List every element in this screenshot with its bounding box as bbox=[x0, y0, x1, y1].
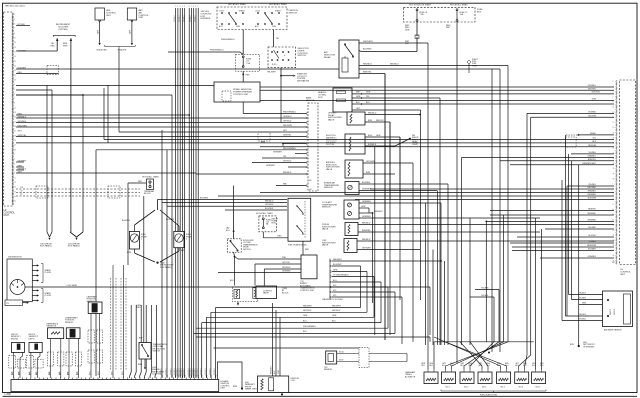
svg-text:NO.6: NO.6 bbox=[536, 387, 540, 389]
svg-text:SWITCH: SWITCH bbox=[153, 351, 161, 353]
wire bbox=[510, 164, 614, 166]
svg-text:23: 23 bbox=[613, 137, 615, 139]
wire bbox=[330, 271, 331, 272]
svg-text:GRY/WHT: GRY/WHT bbox=[362, 247, 372, 249]
wire bbox=[485, 221, 487, 341]
svg-text:YEL/GRN: YEL/GRN bbox=[588, 115, 597, 117]
wire bbox=[565, 135, 567, 316]
svg-text:G2: G2 bbox=[612, 262, 615, 264]
svg-text:BRN/RED: BRN/RED bbox=[362, 230, 371, 232]
svg-text:6: 6 bbox=[189, 6, 190, 8]
svg-text:VALVE: VALVE bbox=[322, 244, 329, 247]
wire bbox=[216, 307, 361, 309]
wire bbox=[306, 166, 307, 167]
svg-text:YEL/BLK: YEL/BLK bbox=[481, 295, 489, 297]
svg-text:RED: RED bbox=[138, 181, 143, 183]
svg-text:NO.4: NO.4 bbox=[501, 387, 505, 389]
wire bbox=[280, 68, 282, 76]
svg-text:1993 Mercedes-Benz: 1993 Mercedes-Benz bbox=[5, 5, 26, 8]
wire bbox=[332, 276, 374, 278]
svg-text:FUEL PUMPS RELAY: FUEL PUMPS RELAY bbox=[288, 244, 307, 247]
wire bbox=[433, 342, 435, 370]
svg-text:BUZZERS: BUZZERS bbox=[201, 18, 211, 20]
wire bbox=[475, 289, 499, 291]
fuel pumps relay bbox=[288, 198, 311, 241]
wire bbox=[134, 249, 136, 253]
wire bbox=[359, 42, 428, 44]
svg-text:GRN/RED: GRN/RED bbox=[587, 220, 596, 222]
wire bbox=[128, 182, 147, 184]
wire bbox=[50, 339, 52, 378]
wire bbox=[171, 95, 173, 378]
node fuel injectors bracket bbox=[441, 390, 546, 392]
svg-text:31: 31 bbox=[613, 158, 615, 160]
wire bbox=[306, 173, 307, 174]
svg-text:SENSOR: SENSOR bbox=[324, 187, 333, 189]
wire bbox=[355, 199, 614, 201]
wire bbox=[103, 88, 105, 140]
wire bbox=[526, 113, 528, 355]
wire bbox=[330, 265, 331, 266]
wire bbox=[302, 241, 304, 255]
wire bbox=[359, 202, 441, 204]
svg-text:RELAY: RELAY bbox=[324, 56, 331, 59]
svg-text:27: 27 bbox=[14, 145, 16, 147]
wire bbox=[107, 85, 109, 142]
wire bbox=[363, 173, 395, 175]
svg-text:BRN: BRN bbox=[233, 386, 238, 388]
wire bbox=[332, 271, 367, 273]
wire bbox=[168, 51, 240, 53]
svg-text:5: 5 bbox=[184, 6, 185, 8]
svg-text:HOT AT ALL TIMES: HOT AT ALL TIMES bbox=[256, 212, 273, 215]
ground bbox=[281, 393, 283, 395]
svg-text:LOCK: LOCK bbox=[255, 11, 261, 13]
wire bbox=[561, 180, 563, 321]
wire bbox=[262, 232, 264, 238]
wire bbox=[507, 66, 509, 342]
svg-text:BRN/RED: BRN/RED bbox=[587, 213, 596, 215]
svg-text:GRN: GRN bbox=[332, 315, 337, 317]
wire bbox=[359, 207, 369, 209]
wire bbox=[359, 65, 508, 67]
wire bbox=[272, 303, 274, 376]
wire bbox=[306, 131, 307, 132]
svg-text:HOT AT ALL TIMES: HOT AT ALL TIMES bbox=[269, 3, 287, 6]
svg-text:GRY/T.BL: GRY/T.BL bbox=[592, 92, 600, 94]
svg-text:L-608: L-608 bbox=[5, 393, 12, 396]
svg-text:BLU/RED: BLU/RED bbox=[265, 208, 274, 210]
svg-text:23: 23 bbox=[14, 135, 16, 137]
wire bbox=[332, 260, 441, 262]
svg-text:GRN: GRN bbox=[376, 135, 381, 137]
heated O2 sensor bbox=[333, 88, 352, 112]
wire spark plugs top bbox=[32, 265, 37, 267]
svg-text:KICK PANEL): KICK PANEL) bbox=[68, 245, 80, 248]
wire bbox=[535, 218, 537, 370]
wire bbox=[461, 158, 463, 346]
svg-text:9: 9 bbox=[195, 6, 196, 8]
svg-text:BRN/YEL: BRN/YEL bbox=[588, 159, 596, 161]
wire bbox=[51, 90, 53, 232]
wire bbox=[440, 203, 442, 345]
svg-text:BCH: BCH bbox=[368, 135, 373, 137]
wire bbox=[384, 74, 386, 341]
svg-text:NO.1: NO.1 bbox=[446, 387, 450, 389]
svg-text:BCH/BLK: BCH/BLK bbox=[368, 144, 377, 146]
svg-text:GRY/YEL: GRY/YEL bbox=[588, 88, 596, 90]
svg-text:11: 11 bbox=[14, 177, 16, 179]
wire bbox=[365, 136, 400, 138]
wire bbox=[178, 248, 180, 251]
svg-text:START: START bbox=[239, 10, 246, 13]
svg-text:YEL/BLU: YEL/BLU bbox=[588, 184, 596, 186]
wire bbox=[305, 190, 307, 192]
svg-text:19: 19 bbox=[613, 230, 615, 232]
wire bbox=[491, 69, 493, 352]
selector lever position switch bbox=[268, 47, 296, 68]
svg-text:RUN: RUN bbox=[236, 26, 241, 28]
wire bbox=[190, 8, 192, 378]
svg-text:11: 11 bbox=[14, 107, 16, 109]
svg-text:21: 21 bbox=[14, 61, 16, 63]
wire bbox=[46, 85, 48, 232]
svg-text:BRN: BRN bbox=[181, 250, 186, 252]
svg-text:BRN/GRN: BRN/GRN bbox=[587, 245, 596, 247]
svg-text:GRY/BLU: GRY/BLU bbox=[283, 121, 292, 123]
fuse box bbox=[403, 7, 475, 22]
wire bbox=[359, 183, 448, 185]
wire bbox=[167, 205, 287, 207]
wire bbox=[218, 195, 614, 197]
wire bbox=[447, 184, 449, 345]
svg-text:GRN/BLK: GRN/BLK bbox=[205, 368, 207, 375]
svg-text:13: 13 bbox=[14, 112, 16, 114]
svg-text:25: 25 bbox=[14, 140, 16, 142]
wire bbox=[357, 249, 420, 251]
wire bbox=[134, 225, 136, 231]
wire bbox=[429, 337, 431, 342]
svg-text:PNK/GRN/BLU: PNK/GRN/BLU bbox=[210, 50, 224, 52]
wire bbox=[525, 355, 527, 370]
wire bbox=[194, 332, 395, 334]
wire bbox=[56, 38, 59, 41]
svg-text:YEL: YEL bbox=[283, 156, 287, 158]
svg-text:29: 29 bbox=[14, 79, 16, 81]
svg-text:BLU/VIO: BLU/VIO bbox=[589, 235, 597, 237]
wire bbox=[503, 215, 505, 342]
wire bbox=[16, 68, 500, 70]
svg-text:PLUGS: PLUGS bbox=[45, 272, 52, 274]
wire bbox=[275, 310, 277, 376]
svg-text:CONTROL UNIT: CONTROL UNIT bbox=[300, 290, 315, 292]
svg-text:GRN/BLK: GRN/BLK bbox=[171, 368, 173, 375]
wire bbox=[82, 95, 84, 232]
wire bbox=[255, 263, 301, 265]
wire bbox=[359, 217, 540, 219]
transmission overload protection switch bbox=[139, 343, 151, 360]
wire bbox=[242, 30, 244, 55]
svg-text:VALVE: VALVE bbox=[322, 228, 329, 231]
wire bbox=[332, 281, 381, 283]
svg-text:15: 15 bbox=[613, 117, 615, 119]
svg-text:BRN/VIO: BRN/VIO bbox=[588, 209, 596, 211]
wire bbox=[233, 252, 236, 256]
solenoid valve block bbox=[232, 287, 257, 302]
wire bbox=[16, 84, 214, 86]
fuel injector NO.3 bbox=[478, 372, 492, 384]
wire bbox=[16, 172, 196, 174]
svg-text:BLU: BLU bbox=[226, 230, 230, 232]
wire bbox=[306, 162, 307, 163]
wire bbox=[123, 265, 125, 378]
svg-text:CONTROL UNIT: CONTROL UNIT bbox=[233, 94, 249, 96]
svg-text:13: 13 bbox=[14, 182, 16, 184]
svg-text:GRN/BLK: GRN/BLK bbox=[181, 368, 183, 375]
svg-text:VIO/RED: VIO/RED bbox=[588, 112, 596, 114]
svg-text:GRN: GRN bbox=[278, 369, 280, 374]
svg-text:WHT: WHT bbox=[63, 46, 68, 48]
svg-text:YEL/BLU: YEL/BLU bbox=[579, 319, 587, 321]
wire bbox=[369, 353, 407, 355]
wire bbox=[104, 139, 614, 141]
svg-text:SWITCH: SWITCH bbox=[298, 55, 307, 57]
TDC sensor bbox=[326, 351, 337, 364]
svg-text:13: 13 bbox=[613, 214, 615, 216]
svg-text:RED/BLU: RED/BLU bbox=[362, 222, 371, 224]
wire injector feeds bbox=[485, 221, 487, 223]
svg-text:29: 29 bbox=[14, 149, 16, 151]
svg-text:YEL/WHT: YEL/WHT bbox=[267, 72, 277, 74]
wire bbox=[306, 149, 307, 150]
wire bbox=[332, 286, 388, 288]
wire bbox=[332, 291, 395, 293]
svg-text:17: 17 bbox=[14, 191, 16, 193]
svg-text:27: 27 bbox=[613, 250, 615, 252]
svg-text:RED: RED bbox=[305, 249, 310, 251]
wire bbox=[195, 8, 197, 378]
svg-text:GRN: GRN bbox=[592, 99, 597, 101]
wire bbox=[541, 229, 543, 370]
svg-text:SENSOR: SENSOR bbox=[324, 369, 333, 371]
svg-text:NO.5: NO.5 bbox=[519, 387, 523, 389]
wire bbox=[279, 317, 281, 376]
wire bbox=[214, 347, 360, 349]
connector inline GRN/YEL bbox=[258, 132, 270, 141]
svg-text:BRN/YEL: BRN/YEL bbox=[363, 71, 372, 73]
wire bbox=[493, 297, 495, 342]
svg-text:27: 27 bbox=[613, 148, 615, 150]
connector 8-pole coupling bbox=[16, 188, 140, 190]
wire bbox=[527, 112, 614, 114]
svg-text:SWITCH: SWITCH bbox=[289, 12, 298, 14]
fuel injector NO.5 bbox=[515, 372, 529, 384]
svg-text:21: 21 bbox=[14, 201, 16, 203]
wire bbox=[486, 220, 614, 222]
wire bbox=[365, 114, 420, 116]
svg-text:GRN/BLU: GRN/BLU bbox=[588, 256, 597, 258]
svg-text:RED/BLU: RED/BLU bbox=[283, 172, 292, 174]
wire bbox=[499, 69, 501, 352]
node fuel pump relay ref bbox=[467, 60, 471, 64]
svg-text:W/HOT: W/HOT bbox=[610, 309, 612, 315]
svg-text:8: 8 bbox=[193, 6, 194, 8]
wire bbox=[112, 265, 114, 378]
fuse F4 bbox=[416, 9, 418, 11]
wire bbox=[512, 250, 614, 252]
wire bbox=[144, 359, 146, 367]
ground G201 bbox=[70, 232, 77, 237]
wire bbox=[337, 361, 359, 363]
wire bbox=[519, 355, 531, 370]
wire bbox=[488, 352, 490, 354]
wire bbox=[242, 102, 244, 114]
ground G101 bbox=[47, 232, 50, 237]
svg-text:GRN/BLK: GRN/BLK bbox=[161, 368, 163, 375]
svg-text:GRN/RED: GRN/RED bbox=[282, 271, 291, 273]
svg-text:RED/BLU: RED/BLU bbox=[368, 112, 377, 114]
svg-text:KICK PANEL): KICK PANEL) bbox=[40, 245, 52, 248]
svg-text:HOT AT ALL TIMES: HOT AT ALL TIMES bbox=[228, 3, 246, 6]
svg-text:3: 3 bbox=[180, 6, 181, 8]
wire bbox=[157, 200, 159, 211]
svg-text:HOT IN RUN OR START: HOT IN RUN OR START bbox=[409, 3, 432, 6]
wire bbox=[545, 228, 614, 230]
wire bbox=[118, 49, 120, 133]
wire bbox=[439, 98, 441, 345]
svg-text:G2: G2 bbox=[309, 180, 312, 182]
svg-text:RED: RED bbox=[278, 236, 283, 238]
svg-text:BLK/RED: BLK/RED bbox=[122, 220, 131, 222]
svg-text:RED/BLU: RED/BLU bbox=[363, 63, 372, 65]
svg-text:GRY/BLU: GRY/BLU bbox=[283, 161, 292, 163]
svg-text:GRN/BLK: GRN/BLK bbox=[192, 368, 194, 375]
ground bbox=[237, 302, 239, 304]
wire bbox=[161, 130, 163, 378]
svg-text:21: 21 bbox=[14, 131, 16, 133]
svg-text:DIAGNOSTIC SOCKET: DIAGNOSTIC SOCKET bbox=[322, 298, 344, 301]
wire bbox=[196, 327, 388, 329]
svg-text:GRN/BLK: GRN/BLK bbox=[195, 15, 197, 22]
svg-text:17: 17 bbox=[613, 122, 615, 124]
wire bbox=[359, 73, 385, 75]
svg-text:GRN/YEL: GRN/YEL bbox=[283, 135, 291, 137]
wire bbox=[571, 161, 573, 300]
wire bbox=[330, 260, 331, 261]
connector inline bbox=[47, 66, 59, 75]
svg-text:GRN/BLK: GRN/BLK bbox=[214, 368, 216, 375]
svg-text:BLU: BLU bbox=[303, 320, 307, 322]
4MATIC automatic transmission control unit bbox=[301, 255, 317, 279]
svg-text:YEL/RED: YEL/RED bbox=[588, 227, 597, 229]
svg-text:RED: RED bbox=[51, 46, 56, 48]
svg-text:GRN: GRN bbox=[361, 206, 366, 208]
node TN signal bbox=[5, 300, 23, 306]
wire bbox=[162, 202, 287, 204]
wire bbox=[70, 38, 73, 41]
svg-text:BLK/GRN: BLK/GRN bbox=[588, 198, 597, 200]
svg-text:1: 1 bbox=[175, 6, 176, 8]
wire bbox=[16, 142, 614, 144]
wire bbox=[510, 242, 614, 244]
wire bbox=[512, 246, 614, 248]
wire bbox=[566, 315, 603, 317]
svg-text:GRY: GRY bbox=[18, 130, 23, 132]
svg-text:39: 39 bbox=[613, 178, 615, 180]
wire coil wire bbox=[25, 286, 430, 288]
wire bbox=[359, 190, 437, 192]
wire bbox=[420, 110, 422, 300]
svg-text:UNIT: UNIT bbox=[106, 15, 112, 17]
wire bbox=[566, 186, 568, 316]
wire bbox=[567, 185, 614, 187]
svg-text:YEL: YEL bbox=[592, 138, 596, 140]
wire bbox=[90, 314, 92, 379]
upshift delay switchover valve bbox=[347, 112, 365, 125]
svg-text:19: 19 bbox=[613, 127, 615, 129]
wire bbox=[427, 43, 429, 370]
wire bbox=[202, 322, 381, 324]
wire bbox=[207, 316, 375, 318]
wire bbox=[358, 224, 614, 226]
svg-text:NO.3: NO.3 bbox=[482, 387, 486, 389]
ground G bbox=[241, 387, 243, 389]
svg-text:YEL/BLK: YEL/BLK bbox=[579, 314, 587, 316]
wire bbox=[99, 22, 101, 43]
svg-text:37: 37 bbox=[613, 173, 615, 175]
svg-text:RED: RED bbox=[137, 307, 142, 309]
wire bbox=[260, 86, 614, 88]
svg-text:RUN: RUN bbox=[272, 26, 277, 28]
wire bbox=[282, 144, 284, 147]
svg-text:7: 7 bbox=[191, 6, 192, 8]
svg-text:YEL/RED: YEL/RED bbox=[578, 298, 586, 300]
svg-text:35: 35 bbox=[613, 168, 615, 170]
svg-text:UNIT: UNIT bbox=[4, 215, 10, 217]
svg-text:RED/BLU: RED/BLU bbox=[265, 200, 274, 202]
svg-text:BRN/LIM: BRN/LIM bbox=[588, 145, 596, 147]
svg-text:RED/GRN/BLU: RED/GRN/BLU bbox=[283, 148, 297, 150]
wire bbox=[260, 89, 614, 91]
wire bbox=[179, 8, 181, 378]
EZL/AKR ignition control unit bbox=[11, 380, 219, 392]
wire bbox=[337, 353, 359, 355]
svg-text:HOT AT ALL TIMES: HOT AT ALL TIMES bbox=[142, 176, 159, 179]
svg-text:UNIT: UNIT bbox=[620, 274, 626, 276]
wire bbox=[242, 71, 244, 82]
svg-text:15: 15 bbox=[613, 219, 615, 221]
intake air temperature sensor bbox=[345, 182, 359, 195]
svg-text:GRN/RED: GRN/RED bbox=[362, 216, 371, 218]
svg-text:BRN/RED/WHT: BRN/RED/WHT bbox=[583, 163, 597, 165]
svg-text:25: 25 bbox=[14, 70, 16, 72]
svg-text:23: 23 bbox=[14, 65, 16, 67]
fuse F10 bbox=[235, 54, 259, 71]
wire bbox=[306, 153, 307, 154]
svg-text:BRN: BRN bbox=[12, 371, 14, 375]
svg-text:BRN/BLU: BRN/BLU bbox=[588, 191, 597, 193]
wire bbox=[578, 134, 614, 136]
svg-text:COIL: COIL bbox=[291, 380, 295, 382]
svg-text:SWITCH: SWITCH bbox=[243, 249, 251, 251]
wire bbox=[572, 299, 603, 301]
svg-text:GRY/BLU: GRY/BLU bbox=[282, 267, 291, 269]
HBS control unit bbox=[95, 8, 104, 20]
svg-text:GRN/BLK: GRN/BLK bbox=[190, 368, 192, 375]
svg-text:19: 19 bbox=[14, 56, 16, 58]
svg-text:BRN: BRN bbox=[127, 252, 132, 254]
svg-text:SENSOR: SENSOR bbox=[322, 207, 331, 209]
